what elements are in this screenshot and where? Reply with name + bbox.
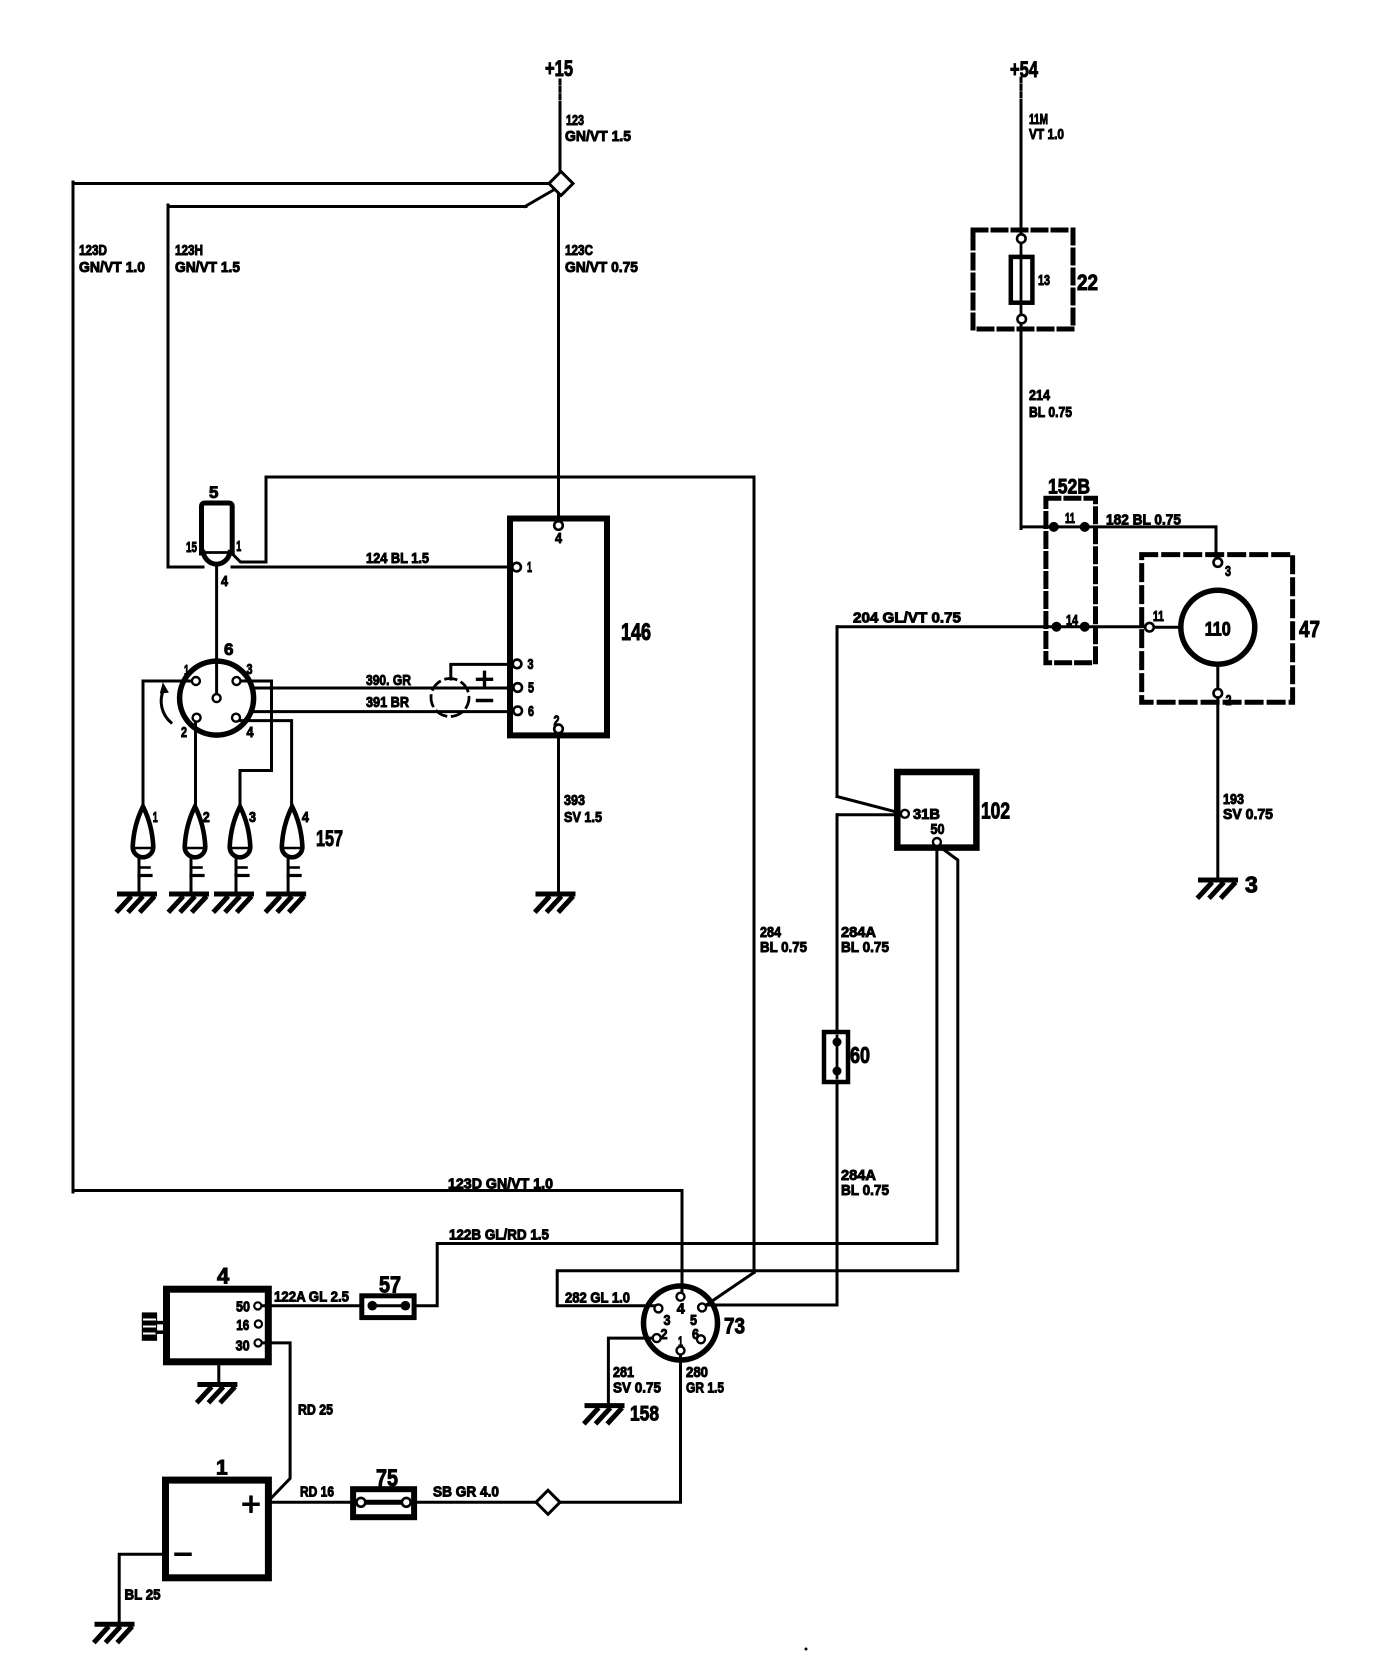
- svg-text:57: 57: [379, 1272, 401, 1298]
- svg-text:RD 25: RD 25: [298, 1402, 333, 1419]
- svg-text:SB GR 4.0: SB GR 4.0: [433, 1484, 499, 1501]
- svg-text:3: 3: [1225, 563, 1231, 580]
- svg-text:393: 393: [564, 792, 585, 809]
- svg-text:280: 280: [686, 1364, 708, 1381]
- svg-text:13: 13: [1038, 272, 1050, 289]
- svg-text:GR 1.5: GR 1.5: [686, 1380, 724, 1397]
- svg-text:146: 146: [621, 619, 651, 646]
- svg-text:4: 4: [221, 573, 229, 590]
- svg-text:182 BL 0.75: 182 BL 0.75: [1106, 512, 1181, 529]
- svg-text:2: 2: [203, 809, 210, 826]
- svg-text:152B: 152B: [1048, 476, 1090, 499]
- svg-text:SV 0.75: SV 0.75: [1223, 806, 1273, 823]
- svg-text:123: 123: [566, 112, 584, 129]
- svg-text:282 GL 1.0: 282 GL 1.0: [565, 1290, 630, 1307]
- svg-text:GN/VT 0.75: GN/VT 0.75: [565, 259, 638, 276]
- svg-text:73: 73: [724, 1314, 745, 1339]
- svg-text:1: 1: [216, 1457, 228, 1480]
- svg-text:75: 75: [376, 1465, 398, 1492]
- svg-text:1: 1: [527, 559, 532, 576]
- svg-text:+15: +15: [545, 56, 573, 81]
- svg-text:5: 5: [209, 483, 218, 502]
- svg-text:2: 2: [554, 713, 560, 730]
- svg-text:BL 25: BL 25: [125, 1587, 161, 1604]
- svg-text:1: 1: [678, 1334, 683, 1351]
- svg-text:11: 11: [1153, 608, 1164, 625]
- svg-text:214: 214: [1029, 387, 1051, 404]
- svg-text:158: 158: [630, 1403, 659, 1426]
- svg-text:SV 0.75: SV 0.75: [613, 1380, 661, 1397]
- svg-text:4: 4: [677, 1301, 686, 1318]
- svg-text:6: 6: [224, 640, 233, 659]
- svg-text:122A GL 2.5: 122A GL 2.5: [274, 1289, 349, 1306]
- svg-text:3: 3: [249, 809, 256, 826]
- svg-text:50: 50: [236, 1299, 250, 1316]
- svg-text:BL 0.75: BL 0.75: [1029, 404, 1072, 421]
- svg-text:123C: 123C: [565, 242, 593, 259]
- svg-text:122B GL/RD 1.5: 122B GL/RD 1.5: [449, 1227, 549, 1244]
- svg-text:60: 60: [850, 1042, 870, 1068]
- svg-text:4: 4: [247, 724, 255, 741]
- svg-text:204 GL/VT 0.75: 204 GL/VT 0.75: [853, 610, 961, 627]
- svg-text:BL 0.75: BL 0.75: [841, 939, 889, 956]
- svg-text:123D: 123D: [79, 242, 107, 259]
- svg-text:3: 3: [1245, 872, 1258, 898]
- svg-text:6: 6: [692, 1326, 699, 1343]
- svg-text:VT 1.0: VT 1.0: [1029, 126, 1064, 143]
- svg-text:4: 4: [302, 809, 310, 826]
- svg-text:281: 281: [613, 1364, 634, 1381]
- svg-text:GN/VT 1.5: GN/VT 1.5: [175, 259, 240, 276]
- svg-text:14: 14: [1066, 612, 1078, 629]
- svg-text:6: 6: [528, 703, 534, 720]
- svg-text:15: 15: [186, 539, 197, 556]
- svg-text:50: 50: [931, 821, 945, 838]
- svg-text:123D GN/VT 1.0: 123D GN/VT 1.0: [448, 1176, 553, 1193]
- svg-text:4: 4: [217, 1264, 230, 1289]
- svg-text:47: 47: [1299, 616, 1320, 642]
- svg-text:102: 102: [981, 798, 1010, 824]
- svg-text:1: 1: [153, 809, 158, 826]
- svg-text:390. GR: 390. GR: [366, 672, 411, 689]
- svg-text:11: 11: [1065, 510, 1075, 527]
- svg-text:1: 1: [236, 538, 241, 555]
- svg-text:SV 1.5: SV 1.5: [564, 809, 602, 826]
- svg-text:RD 16: RD 16: [300, 1484, 334, 1501]
- svg-text:124 BL 1.5: 124 BL 1.5: [366, 550, 429, 567]
- svg-text:30: 30: [236, 1338, 250, 1355]
- svg-text:3: 3: [247, 661, 253, 678]
- svg-text:+54: +54: [1010, 57, 1039, 82]
- svg-text:4: 4: [555, 530, 563, 547]
- svg-text:3: 3: [528, 656, 534, 673]
- svg-text:BL 0.75: BL 0.75: [841, 1182, 889, 1199]
- svg-text:2: 2: [661, 1326, 668, 1343]
- svg-text:391 BR: 391 BR: [366, 694, 409, 711]
- svg-text:110: 110: [1205, 620, 1231, 641]
- svg-text:22: 22: [1077, 270, 1098, 295]
- svg-text:2: 2: [181, 724, 187, 741]
- svg-text:16: 16: [236, 1317, 249, 1334]
- svg-text:123H: 123H: [175, 242, 203, 259]
- svg-text:2: 2: [1226, 692, 1232, 709]
- svg-text:GN/VT 1.5: GN/VT 1.5: [565, 128, 631, 145]
- svg-text:1: 1: [184, 662, 189, 679]
- svg-text:157: 157: [316, 826, 343, 851]
- svg-text:GN/VT 1.0: GN/VT 1.0: [79, 259, 145, 276]
- svg-text:BL 0.75: BL 0.75: [760, 939, 807, 956]
- svg-text:5: 5: [528, 680, 534, 697]
